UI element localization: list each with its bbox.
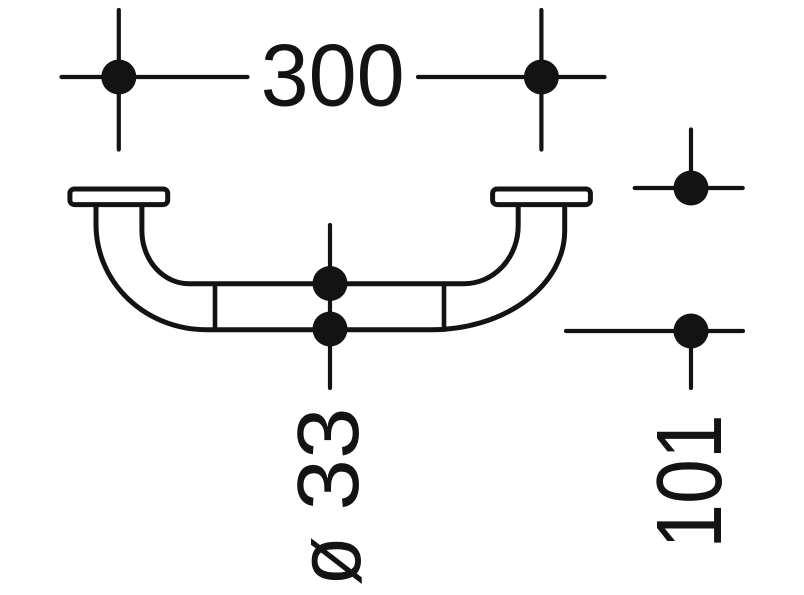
lower right marker vertical stub (689, 331, 693, 388)
left crosshair vertical (117, 10, 121, 150)
svg-text:101: 101 (637, 414, 741, 549)
lower right marker horizontal line (566, 329, 743, 333)
lower right marker dot (674, 314, 709, 349)
dimension line 300 right segment (418, 75, 605, 79)
grab bar centre line (328, 225, 332, 388)
grab bar joint line right (442, 284, 447, 330)
upper right marker vertical stub (689, 130, 693, 189)
right wall flange (493, 189, 591, 205)
svg-text:33: 33 (280, 407, 377, 510)
grab bar outer contour (96, 203, 565, 330)
svg-text:ø: ø (280, 536, 380, 586)
svg-text:300: 300 (261, 25, 405, 124)
left crosshair dot (101, 60, 136, 95)
upper right marker horizontal line (635, 186, 743, 190)
right crosshair dot (524, 60, 559, 95)
right crosshair vertical (539, 10, 543, 150)
left wall flange (70, 189, 168, 205)
dimension line 300 left segment (62, 75, 248, 79)
grab bar joint line left (213, 284, 218, 330)
upper right marker dot (674, 171, 709, 206)
grab bar inner contour (142, 203, 518, 284)
bar top dot (313, 266, 348, 301)
bar bottom dot (313, 312, 348, 347)
